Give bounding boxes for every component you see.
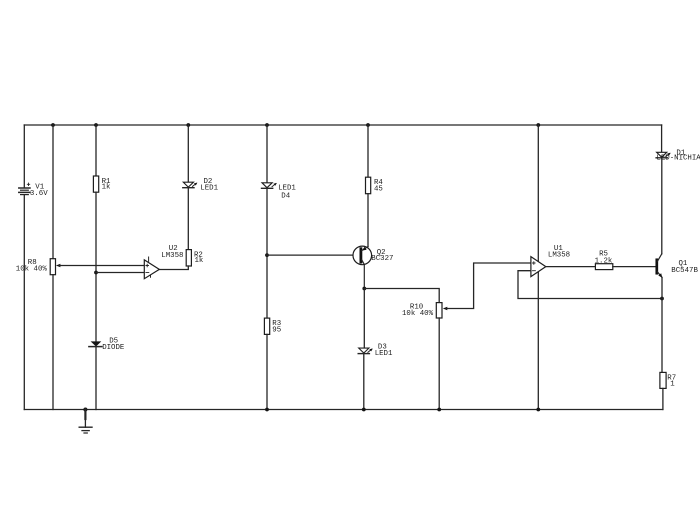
wire R4 top [367, 125, 369, 177]
LED D2 LED1 [183, 178, 219, 193]
wire Q1 emitter down [661, 277, 663, 372]
svg-text:LED1: LED1 [200, 185, 218, 193]
LED D4 LED1 [262, 183, 297, 201]
node junction bottom rail at ground [83, 408, 87, 412]
potentiometer R10 10k 40% [402, 303, 447, 319]
wire R2 to U2 output [159, 266, 188, 270]
node junction Q2 collector node [362, 287, 366, 291]
wire battery branch bottom [23, 195, 25, 409]
LED D1 LED-NICHIA [656, 150, 700, 163]
wire R7 bottom to rail [662, 388, 664, 409]
wire R3 bottom [266, 334, 268, 409]
battery V1 [19, 183, 48, 198]
wire R10 wiper to U1 noninverting input [447, 263, 531, 309]
svg-text:45: 45 [374, 186, 383, 194]
wire D4 to R3 [266, 189, 268, 318]
node junction U2 inverting input tap [94, 271, 98, 275]
svg-text:BC547B: BC547B [671, 267, 698, 275]
svg-text:95: 95 [272, 327, 281, 335]
resistor R3 95 [264, 318, 281, 335]
svg-text:D4: D4 [281, 193, 290, 201]
resistor R4 45 [366, 177, 384, 194]
svg-text:1.2k: 1.2k [595, 257, 613, 265]
wire U2 noninverting input from R8 wiper [60, 265, 145, 267]
diode D5 DIODE [89, 338, 125, 352]
svg-text:10k 40%: 10k 40% [402, 310, 434, 318]
resistor R1 1k [93, 176, 111, 192]
wire R8 top [52, 125, 54, 259]
wire D2 top [187, 125, 189, 182]
svg-text:1: 1 [670, 381, 675, 389]
wire U1 feedback from Q1 emitter [518, 271, 662, 299]
wire D2 to R2 [187, 188, 189, 249]
node junction top rail at R8 branch [51, 123, 55, 127]
op-amp U2 LM358 [144, 245, 183, 279]
transistor Q1 BC547B [657, 254, 699, 278]
wire Q2 base [267, 254, 360, 256]
wire D3 top [363, 289, 365, 349]
wire R10 bottom [438, 318, 440, 410]
svg-text:LM358: LM358 [548, 252, 570, 260]
resistor R5 1.2k [595, 251, 613, 270]
wire R5 to Q1 base [613, 266, 656, 268]
svg-text:DIODE: DIODE [102, 344, 125, 352]
wire D5 bottom [95, 347, 97, 409]
wire D4 top [266, 125, 268, 183]
svg-text:1k: 1k [195, 257, 204, 265]
node junction top rail at D4 branch [265, 123, 269, 127]
resistor R2 1k [186, 250, 204, 266]
wire U1 output [546, 266, 596, 268]
node junction bottom rail at R10 [437, 408, 441, 412]
svg-text:1k: 1k [102, 184, 111, 192]
svg-text:LM358: LM358 [161, 252, 183, 260]
wire top rail corner down to D1 [661, 125, 663, 152]
wire R4 to Q2 emitter [367, 194, 369, 247]
wire battery branch top [23, 125, 25, 187]
wire R1 to D5 branch [95, 192, 97, 341]
wire D3 bottom [363, 354, 365, 410]
node junction bottom rail at D3 [362, 408, 366, 412]
wire U2 inverting input [96, 272, 144, 274]
node junction top rail at R4 branch [366, 123, 370, 127]
svg-text:LED1: LED1 [375, 350, 393, 358]
potentiometer R8 10k 40% [16, 259, 61, 275]
svg-text:10k 40%: 10k 40% [16, 266, 48, 274]
wire U1 supply branch [537, 125, 539, 410]
wire bottom ground rail [24, 409, 663, 411]
node junction Q2 base tap [265, 253, 269, 257]
svg-text:3.6V: 3.6V [30, 190, 48, 198]
node junction bottom rail at R3 [265, 408, 269, 412]
wire R1 top [95, 125, 97, 176]
node junction top rail at R1 branch [94, 123, 98, 127]
wire Q1 collector to D1 [661, 158, 663, 253]
node junction bottom rail at U1 supply [536, 408, 540, 412]
wire Q2 node to R10 [364, 289, 439, 303]
node junction top rail at D2 branch [186, 123, 190, 127]
op-amp U1 LM358 [531, 245, 570, 277]
svg-text:LED-NICHIA: LED-NICHIA [656, 155, 700, 163]
resistor R7 1 [660, 372, 676, 388]
ground [79, 410, 92, 434]
node junction Q1 emitter feedback tap [660, 297, 664, 301]
wire top supply rail [24, 124, 661, 126]
LED D3 LED1 [358, 344, 393, 358]
wire R8 bottom [52, 275, 54, 410]
transistor Q2 BC327 [353, 246, 393, 288]
svg-text:BC327: BC327 [371, 255, 393, 263]
svg-text:LED1: LED1 [278, 185, 296, 193]
node junction top rail at U1 supply [536, 123, 540, 127]
